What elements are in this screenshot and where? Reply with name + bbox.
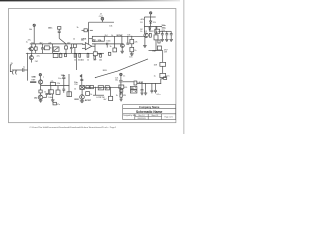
- wire vertical x=76.6: [76, 53, 78, 70]
- capacitor column C6: [161, 31, 165, 41]
- ground Q2: [120, 48, 124, 54]
- svg-text:1k: 1k: [116, 95, 118, 97]
- svg-text:10k: 10k: [92, 41, 95, 43]
- ground drop2: [144, 84, 147, 95]
- box small C20: [53, 102, 56, 105]
- rail upper y=43.9: [30, 43, 83, 45]
- svg-text:47u: 47u: [57, 104, 60, 106]
- box P1 lower: [53, 54, 58, 58]
- wire vertical x=81.8: [81, 74, 83, 85]
- box R11: [155, 27, 160, 34]
- svg-text:24/02/2013: 24/02/2013: [138, 118, 146, 120]
- svg-text:GND: GND: [32, 77, 37, 79]
- svg-text:BC547: BC547: [117, 34, 123, 37]
- capacitor C12: [49, 90, 52, 94]
- potentiometer P1: [53, 47, 59, 51]
- svg-text:4k7: 4k7: [39, 42, 42, 44]
- svg-text:1k: 1k: [50, 47, 52, 49]
- svg-text:47u: 47u: [28, 39, 31, 41]
- svg-text:4k7: 4k7: [99, 88, 102, 90]
- svg-text:100n: 100n: [78, 59, 82, 61]
- rail y=36.3: [104, 35, 145, 37]
- rail mid2 y=85.6: [41, 85, 69, 87]
- resistor R12: [154, 27, 158, 51]
- svg-text:1k: 1k: [111, 35, 113, 37]
- wire branch x=95.4: [94, 87, 96, 95]
- page border frame: [9, 9, 176, 123]
- wire vertical x=88.6: [88, 22, 90, 44]
- svg-text:2W: 2W: [164, 51, 167, 53]
- transistor Q1: [28, 44, 34, 53]
- wire long sloped: [95, 59, 148, 78]
- wire vertical x=69: [68, 74, 70, 97]
- connector circle CN2: [39, 74, 41, 80]
- jack J1: [10, 65, 22, 75]
- transistor Q8: [38, 95, 46, 99]
- op-amp U1: [82, 43, 95, 50]
- rail mid y=53.3 hang bank: [59, 54, 101, 60]
- box comp4: [120, 89, 123, 92]
- svg-text:Company Name: Company Name: [139, 105, 160, 109]
- comp x=158: [158, 40, 160, 43]
- wire y=80.7: [123, 81, 134, 83]
- small circle node: [80, 75, 82, 77]
- ground Q8: [39, 100, 43, 103]
- transistor Q2: [121, 36, 125, 47]
- wire x=52.7 ground: [51, 94, 55, 102]
- ground RX2: [120, 99, 123, 101]
- svg-text:1k: 1k: [74, 60, 76, 62]
- scan artifact: right edge line: [182, 0, 185, 134]
- capacitor C4: [107, 43, 108, 48]
- svg-text:REL: REL: [131, 88, 135, 90]
- capacitor drop3: [151, 84, 154, 94]
- capacitor C2 input: [58, 27, 61, 39]
- svg-text:L: L: [43, 76, 44, 78]
- capacitor column C8: [169, 31, 173, 41]
- rail y=22.2: [89, 21, 114, 23]
- svg-text:1k: 1k: [106, 88, 108, 90]
- wire x=52.6: [52, 44, 54, 53]
- svg-text:Q3: Q3: [144, 31, 147, 33]
- svg-text:5W: 5W: [123, 95, 126, 97]
- box U2a: [86, 85, 89, 88]
- svg-text:4k7: 4k7: [93, 60, 96, 62]
- box R17: [48, 86, 53, 94]
- box U2d: [105, 86, 109, 90]
- capacitor C5: [126, 36, 129, 44]
- rail y=17: [144, 16, 155, 18]
- wire vertical x=27.4: [26, 53, 28, 80]
- rail y=43.9 right: [92, 43, 122, 45]
- svg-text:1k: 1k: [73, 39, 75, 41]
- scan artifact: dark top edge band: [0, 0, 180, 1]
- svg-text:0.1u: 0.1u: [157, 94, 161, 96]
- connector VCC: [150, 12, 152, 17]
- capacitor C3 tick: [90, 29, 93, 31]
- svg-text:1u: 1u: [26, 42, 28, 44]
- svg-text:0R22: 0R22: [149, 31, 154, 33]
- svg-text:0R22: 0R22: [74, 99, 79, 101]
- svg-text:47k: 47k: [50, 81, 53, 83]
- rail y=26.5: [144, 26, 162, 28]
- box speaker terminal: [134, 81, 137, 85]
- box below rail: [86, 92, 90, 96]
- svg-text:10u: 10u: [58, 78, 61, 80]
- resistor RX2: [120, 93, 122, 99]
- svg-text:LS 8R: LS 8R: [138, 82, 144, 84]
- capacitor C2b: [70, 44, 73, 53]
- svg-text:10u: 10u: [115, 79, 118, 81]
- svg-text:1n: 1n: [123, 75, 125, 77]
- transistor Q6: [80, 89, 85, 99]
- diode D3: [149, 27, 151, 32]
- connector TP1: [33, 24, 35, 26]
- wire Q5 down: [40, 84, 42, 90]
- resistor R6 series: [93, 52, 104, 56]
- capacitor C22 plates: [119, 80, 122, 82]
- svg-text:D1: D1: [140, 22, 142, 24]
- small comp x=108.5: [108, 52, 110, 55]
- svg-text:1k: 1k: [140, 31, 142, 33]
- rail OUT y=50.5: [149, 50, 163, 52]
- svg-text:22k: 22k: [57, 83, 60, 85]
- svg-text:10n: 10n: [129, 56, 132, 58]
- capacitor column C7: [165, 31, 169, 41]
- svg-text:Page 1 of 1: Page 1 of 1: [165, 116, 173, 118]
- svg-text:4k7: 4k7: [67, 42, 70, 44]
- svg-text:1k: 1k: [77, 27, 79, 29]
- svg-text:22u: 22u: [37, 55, 40, 57]
- resistor R3: [44, 46, 49, 50]
- svg-text:+30V: +30V: [140, 19, 145, 21]
- resistor R7: [82, 29, 89, 32]
- svg-text:Designed by: Hulk: Designed by: Hulk: [123, 115, 136, 117]
- svg-text:0.22R 5W: 0.22R 5W: [96, 97, 105, 99]
- svg-text:47u: 47u: [166, 76, 169, 78]
- comp right of Q3: [149, 33, 151, 37]
- capacitor drop1: [140, 84, 143, 95]
- connector TP2: [101, 17, 104, 22]
- wire R11 to caps: [156, 31, 158, 33]
- capacitor C14: [62, 75, 65, 86]
- svg-text:Rev: 1.0: Rev: 1.0: [139, 115, 145, 117]
- svg-text:BC557: BC557: [85, 100, 91, 102]
- box K1: [89, 36, 105, 41]
- capacitor C15: [62, 86, 65, 93]
- box C9: [157, 46, 161, 50]
- box terminal SPK: [164, 77, 167, 80]
- svg-text:C:\Users\The Hulk\Documents\Do: C:\Users\The Hulk\Documents\Downloads\Do…: [30, 126, 117, 129]
- title block outline: [123, 105, 176, 120]
- resistor R14: [39, 90, 42, 95]
- svg-text:2k2: 2k2: [35, 61, 38, 63]
- resistor R2: [34, 44, 37, 53]
- svg-text:1k: 1k: [44, 92, 46, 94]
- svg-text:10k: 10k: [109, 26, 112, 28]
- connector CN3: [120, 73, 122, 80]
- wire vertical x=144.4: [143, 17, 145, 33]
- rail caps top y=31.3: [158, 30, 171, 32]
- resistor R4: [65, 44, 68, 53]
- rail speaker y=83.5: [137, 83, 161, 85]
- svg-text:2k2: 2k2: [105, 35, 108, 37]
- transistor Q5: [39, 80, 43, 84]
- wire TP1 down: [33, 26, 35, 44]
- wire diagonal to rail: [59, 38, 66, 44]
- wire vertical x=162.7: [162, 51, 164, 63]
- svg-text:10k: 10k: [29, 29, 32, 31]
- box comp2: [56, 86, 60, 95]
- junction dots: [27, 26, 161, 88]
- transistor Q3: [144, 33, 148, 37]
- diode D1: [150, 17, 152, 27]
- capacitor C19: [45, 94, 48, 98]
- box R10: [130, 44, 134, 54]
- svg-text:100n: 100n: [106, 41, 110, 43]
- svg-text:4k7: 4k7: [103, 99, 106, 101]
- connector J2 texts bar: [30, 81, 36, 82]
- svg-text:10k: 10k: [99, 60, 102, 62]
- ground Q6: [80, 99, 84, 102]
- svg-text:22k: 22k: [48, 43, 51, 45]
- svg-text:R2: R2: [31, 42, 33, 44]
- resistor R13: [160, 62, 166, 73]
- box D2: [130, 36, 134, 44]
- svg-text:1k: 1k: [90, 94, 92, 96]
- capacitor C16: [80, 79, 83, 80]
- svg-text:22k: 22k: [134, 42, 137, 44]
- capacitor C10: [160, 73, 166, 79]
- capacitor drop4: [154, 84, 157, 94]
- svg-text:75: 75: [81, 40, 83, 42]
- svg-text:1k: 1k: [74, 88, 76, 90]
- svg-text:1u: 1u: [23, 66, 25, 68]
- svg-text:1u: 1u: [154, 75, 156, 77]
- resistor R16: [109, 87, 113, 100]
- box on x=69: [67, 92, 72, 97]
- ground Q3: [143, 38, 147, 48]
- svg-text:10k: 10k: [98, 54, 101, 56]
- box U2b: [90, 85, 93, 88]
- wire op-amp out node: [94, 44, 96, 52]
- resistor R15 above rail: [50, 83, 55, 86]
- rail y=87.3: [84, 86, 121, 88]
- svg-text:2k2: 2k2: [34, 97, 37, 99]
- svg-text:1n: 1n: [100, 41, 102, 43]
- wire corner to speaker rail: [161, 79, 163, 84]
- wire vertical x=120.9: [120, 82, 122, 95]
- ground D2 chain: [130, 54, 134, 56]
- svg-text:1k: 1k: [87, 60, 89, 62]
- box comp3: [119, 85, 124, 88]
- svg-text:10k: 10k: [127, 34, 130, 36]
- svg-text:1k: 1k: [134, 50, 136, 52]
- capacitor C11 series: [23, 68, 28, 72]
- box X1: [80, 85, 85, 89]
- svg-text:100n: 100n: [48, 97, 52, 99]
- svg-text:1k: 1k: [110, 46, 112, 48]
- svg-text:J3: J3: [100, 14, 102, 16]
- wire y=95.2: [93, 94, 104, 96]
- svg-text:47k: 47k: [124, 87, 127, 89]
- capacitor C2a: [41, 44, 44, 53]
- relay K2: [130, 86, 137, 93]
- node dot sloped: [95, 77, 96, 78]
- transistor Q4: [29, 53, 33, 62]
- box U2c: [98, 86, 103, 90]
- resistor R5: [73, 44, 76, 53]
- resistor R8: [113, 36, 117, 52]
- rail lower y=53.3: [26, 52, 93, 54]
- svg-text:Schematic Name: Schematic Name: [136, 110, 163, 114]
